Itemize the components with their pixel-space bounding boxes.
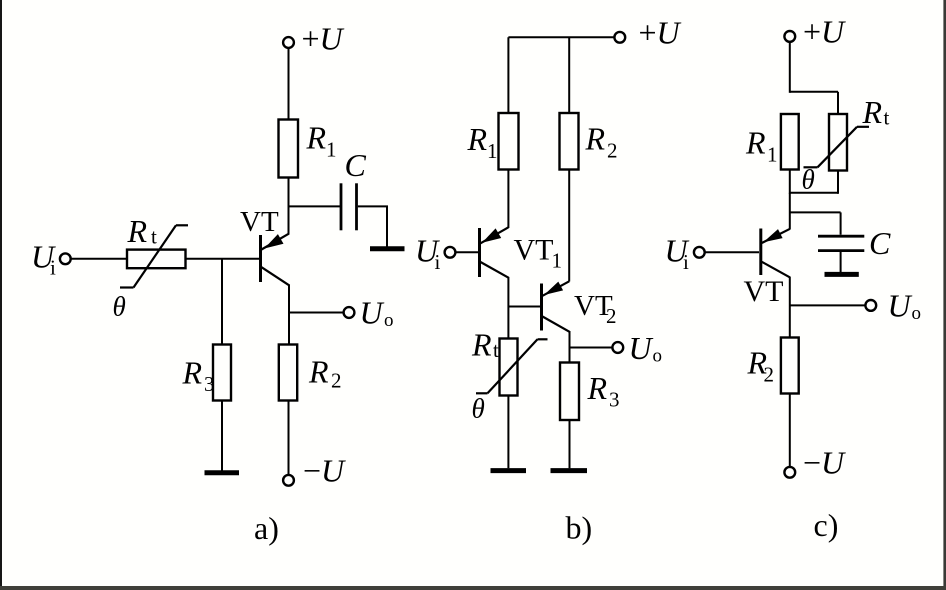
wire Rt to ground (b) <box>507 396 509 469</box>
svg-text:1: 1 <box>487 139 498 163</box>
svg-text:R: R <box>745 125 766 161</box>
wire parallel bottom bar (c) <box>790 192 838 194</box>
label Uo (b) <box>629 330 663 367</box>
thermistor Rt (c) <box>804 114 870 171</box>
label VT1 (b) <box>514 234 563 273</box>
wire collector node to C (c) <box>790 212 841 234</box>
svg-text:2: 2 <box>607 139 618 163</box>
svg-text:b): b) <box>566 510 593 546</box>
ground for C (a) <box>370 246 405 251</box>
terminal Uo (c) <box>865 300 876 311</box>
wire rail to R1 (b) <box>507 37 509 113</box>
svg-text:U: U <box>888 288 913 324</box>
svg-text:i: i <box>435 250 441 274</box>
wire top bar to Rt (c) <box>837 92 839 115</box>
svg-text:o: o <box>912 303 922 324</box>
ground for C (c) <box>825 272 859 277</box>
wire base node to R3 (a) <box>221 259 223 345</box>
ground (a) <box>205 470 240 475</box>
resistor R3 (b) <box>560 363 579 421</box>
svg-text:R: R <box>182 355 203 391</box>
svg-text:i: i <box>50 256 56 280</box>
wire emitter to R2 (c) <box>789 277 791 338</box>
transistor VT1 (b) <box>480 227 509 277</box>
terminal +U (b) <box>614 32 625 43</box>
wire Rt to base (a) <box>186 258 260 260</box>
label R3 (a) <box>182 355 215 397</box>
terminal +U (c) <box>784 31 795 42</box>
svg-text:o: o <box>384 310 394 331</box>
resistor R1 (a) <box>279 120 299 178</box>
svg-text:θ: θ <box>472 394 485 424</box>
transistor VT (a) <box>261 234 290 286</box>
svg-text:+U: +U <box>302 21 345 57</box>
svg-text:VT: VT <box>744 275 784 308</box>
label R3 (b) <box>587 370 620 412</box>
svg-text:1: 1 <box>326 138 337 162</box>
wire collector node to C (a) <box>289 205 341 207</box>
thermistor Rt (a) <box>120 225 188 287</box>
svg-text:c): c) <box>814 507 839 543</box>
wire R2 to -U (a) <box>288 401 290 475</box>
wire bottom bar to collector (c) <box>789 193 791 230</box>
label VT2 (b) <box>574 290 617 328</box>
wire output node to Uo (c) <box>790 304 866 306</box>
svg-text:3: 3 <box>609 388 620 412</box>
wire Ui to base (b) <box>456 251 478 253</box>
svg-text:t: t <box>151 225 157 249</box>
label Rt (c) <box>862 94 890 130</box>
resistor R3 (a) <box>213 345 231 401</box>
svg-text:VT: VT <box>514 234 554 267</box>
frame right border <box>943 0 946 586</box>
thermistor Rt (b) <box>476 339 548 396</box>
svg-text:R: R <box>467 121 488 157</box>
frame left border <box>0 0 2 586</box>
svg-text:U: U <box>629 330 654 366</box>
wire R1 to collector (a) <box>288 178 290 235</box>
wire R1 to bottom bar (c) <box>789 170 791 194</box>
label R2 (a) <box>308 354 342 393</box>
svg-text:C: C <box>869 225 891 261</box>
svg-text:a): a) <box>254 510 279 546</box>
wire C to ground (c) <box>840 251 842 272</box>
svg-text:R: R <box>587 370 608 406</box>
svg-text:θ: θ <box>802 165 815 195</box>
label Ui (c) <box>665 233 690 275</box>
label Ui (a) <box>31 239 56 280</box>
svg-text:U: U <box>360 295 385 331</box>
label R2 (b) <box>585 121 618 163</box>
wire output node to Uo (a) <box>289 312 344 314</box>
svg-text:+U: +U <box>803 14 846 50</box>
terminal Ui (a) <box>60 253 71 264</box>
svg-text:−U: −U <box>803 445 846 481</box>
capacitor C (c) <box>818 236 864 250</box>
svg-text:1: 1 <box>767 143 778 167</box>
wire +U down (c) <box>789 42 791 93</box>
label Rt (a) <box>127 213 158 249</box>
wire VT1 emitter to Rt (b) <box>507 277 509 339</box>
wire emitter to R2 (a) <box>288 285 290 346</box>
transistor VT (c) <box>761 229 790 278</box>
svg-text:3: 3 <box>204 372 215 396</box>
resistor R2 (a) <box>279 345 297 401</box>
label R1 (b) <box>467 121 498 163</box>
label R1 (c) <box>745 125 778 167</box>
wire R3 to ground (a) <box>221 401 223 471</box>
label R1 (a) <box>306 120 337 162</box>
svg-text:VT: VT <box>240 206 279 238</box>
svg-text:1: 1 <box>552 249 563 273</box>
terminal -U (a) <box>283 475 294 486</box>
frame bottom band <box>0 586 946 590</box>
resistor R1 (b) <box>499 113 519 170</box>
svg-text:R: R <box>471 327 492 363</box>
terminal Ui (c) <box>694 247 705 258</box>
svg-text:C: C <box>345 147 367 183</box>
wire R2 to -U (c) <box>789 394 791 467</box>
svg-text:R: R <box>862 94 883 130</box>
svg-text:2: 2 <box>331 369 342 393</box>
resistor R2 (c) <box>781 338 799 394</box>
svg-text:+U: +U <box>639 15 682 51</box>
terminal -U (c) <box>784 467 795 478</box>
label R2 (c) <box>747 345 775 387</box>
svg-text:t: t <box>884 106 890 130</box>
wire Rt to bottom bar (c) <box>837 171 839 194</box>
svg-text:i: i <box>683 250 689 274</box>
wire VT2 base (b) <box>508 306 540 308</box>
wire output node to Uo (b) <box>570 347 613 349</box>
resistor R2 (b) <box>560 113 579 170</box>
terminal Ui (b) <box>445 247 456 258</box>
svg-text:o: o <box>653 346 663 367</box>
terminal Uo (a) <box>344 307 355 318</box>
svg-text:R: R <box>308 354 329 390</box>
svg-text:−U: −U <box>303 453 346 489</box>
wire R1 to VT1 collector (b) <box>507 170 509 229</box>
svg-text:2: 2 <box>606 304 617 328</box>
wire +U to R1 (a) <box>288 48 290 120</box>
wire rail to R2 (b) <box>568 37 570 113</box>
capacitor C (a) <box>341 183 357 230</box>
terminal +U (a) <box>283 37 294 48</box>
label Ui (b) <box>415 233 441 275</box>
label Uo (c) <box>888 288 922 325</box>
wire C to ground (a) <box>358 206 387 246</box>
transistor VT2 (b) <box>542 281 570 332</box>
ground right (b) <box>551 468 588 473</box>
label Rt (b) <box>471 327 499 363</box>
svg-text:R: R <box>127 213 148 249</box>
wire parallel top bar (c) <box>790 91 838 93</box>
terminal Uo (b) <box>612 342 623 353</box>
svg-text:R: R <box>306 120 327 156</box>
svg-text:θ: θ <box>113 292 126 322</box>
wire VT2 emitter to R3 (b) <box>569 331 571 363</box>
svg-text:t: t <box>493 338 499 362</box>
ground left (b) <box>491 468 527 473</box>
wire Ui to Rt (a) <box>71 258 127 260</box>
wire Ui to base (c) <box>705 251 759 253</box>
wire R3 to ground (b) <box>569 420 571 468</box>
svg-text:2: 2 <box>764 363 775 387</box>
wire R2 to VT2 collector (b) <box>568 170 570 282</box>
resistor R1 (c) <box>781 114 799 170</box>
wire top rail (b) <box>508 36 615 38</box>
label Uo (a) <box>360 295 394 332</box>
svg-text:R: R <box>585 121 606 157</box>
